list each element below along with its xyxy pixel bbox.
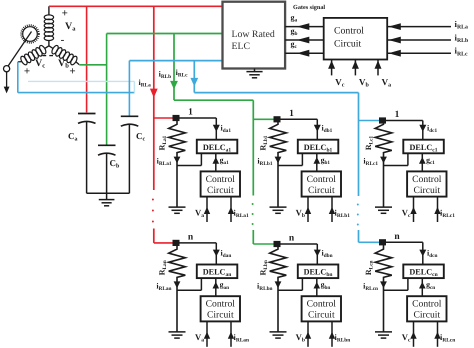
- arrow iRLb1 feedback: [329, 197, 335, 222]
- node 1 (phase c): [379, 117, 386, 123]
- capacitor Ca: [78, 114, 96, 194]
- block DELCan: [197, 265, 238, 279]
- wire Vb into control: [354, 60, 356, 76]
- arrow iRLa1 feedback: [228, 197, 234, 222]
- svg-text:Control: Control: [412, 174, 442, 185]
- wire phase b dotted continuation: [252, 203, 254, 225]
- block Control Circuit (cell b1): [302, 171, 341, 196]
- label Vc (cell c1): [402, 207, 411, 219]
- label gb1: [321, 155, 331, 166]
- wire gate gc: [285, 52, 324, 54]
- arrow gate ga: [297, 23, 310, 30]
- svg-text:+: +: [24, 66, 30, 78]
- wire phase b vertical at generator: [106, 34, 108, 146]
- block DELCc1: [403, 140, 444, 154]
- resistor RLcn: [375, 245, 392, 332]
- wire cell a1 top: [176, 118, 216, 140]
- svg-text:Control: Control: [307, 174, 337, 185]
- wire phase a drop to capacitor Ca: [86, 6, 88, 112]
- wire cell bn top: [277, 244, 317, 265]
- wire phase c top horizontal: [129, 60, 222, 62]
- svg-text:-: -: [61, 34, 65, 46]
- svg-text:Circuit: Circuit: [413, 185, 440, 196]
- wire phase c from coil: [17, 62, 19, 93]
- shaft end circle: [4, 66, 10, 72]
- label iRLbn (left): [257, 281, 273, 292]
- node n (phase a): [173, 240, 180, 246]
- svg-text:n: n: [289, 234, 295, 244]
- wire phase c dotted continuation: [357, 204, 359, 226]
- arrow iRLan (load current): [174, 281, 181, 288]
- block DELCcn: [403, 265, 444, 279]
- node 1 (phase b): [274, 116, 281, 122]
- arrow iRLb1 (load current): [275, 157, 282, 164]
- label gb: [291, 26, 298, 37]
- wire cell c1 top: [383, 121, 423, 140]
- block Control Circuit (cell an): [201, 296, 240, 321]
- block Control Circuit (cell c1): [407, 171, 446, 196]
- arrow iRLc into control: [388, 50, 400, 57]
- ground (cell bn): [270, 332, 287, 338]
- label node n: [394, 232, 400, 242]
- label ga: [291, 13, 298, 24]
- ground (cell a1): [169, 207, 186, 213]
- wire DELCc1 to load junction: [384, 153, 408, 165]
- arrow gate gc: [297, 50, 310, 57]
- wire phase b spur to node bn: [253, 243, 275, 245]
- wire phase a feeder lower: [153, 229, 155, 243]
- wire cell an top: [176, 243, 216, 265]
- label iRLbn feedback: [335, 333, 351, 344]
- label ida1: [221, 124, 232, 135]
- svg-text:+: +: [62, 8, 68, 20]
- label iRLa1 (left): [157, 157, 172, 168]
- svg-text:Circuit: Circuit: [308, 310, 335, 321]
- label idbn: [322, 248, 333, 259]
- block Control Circuit (cell bn): [302, 296, 341, 321]
- wire gate gb: [285, 39, 324, 41]
- wire phase c feeder drop: [193, 61, 195, 93]
- label Vb (cell b1): [296, 207, 305, 219]
- label Gates signal: [293, 4, 325, 11]
- label RLbn: [259, 260, 270, 275]
- arrow iRLcn feedback: [434, 322, 440, 347]
- winding Vb (phase b coil): [49, 44, 79, 65]
- label iRLa (right): [455, 19, 469, 31]
- wire Vc into control: [331, 60, 333, 76]
- generator prime-mover (hatched machine circle): [21, 25, 39, 43]
- block Control Circuit (cell a1): [201, 171, 240, 196]
- wire phase b feeder lower: [252, 230, 254, 244]
- label node n: [289, 234, 295, 244]
- svg-text:Control: Control: [206, 174, 236, 185]
- label iRLc (right): [455, 46, 469, 58]
- svg-text:Control: Control: [334, 26, 364, 37]
- arrow gate gb: [297, 37, 310, 44]
- ground (cell c1): [375, 207, 392, 213]
- label gc1: [426, 155, 435, 166]
- label iRLb1 feedback: [335, 208, 351, 219]
- arrow Va (cell a1): [204, 197, 210, 222]
- winding Va (phase a coil): [44, 6, 53, 46]
- ground (cell an): [169, 332, 186, 338]
- arrow gbn: [314, 278, 321, 296]
- arrow Vc into control: [328, 61, 335, 69]
- wire phase c drop to capacitor Cc: [128, 61, 130, 117]
- wire DELCcn to load junction: [384, 278, 408, 290]
- label iRLc1 (left): [363, 157, 378, 168]
- wire phase a dotted continuation: [152, 199, 154, 223]
- svg-text:Control: Control: [307, 299, 337, 310]
- label iRLb (right): [455, 33, 469, 45]
- label node 1: [289, 109, 294, 119]
- wire phase c spur to node cn: [359, 241, 380, 243]
- label iRLc1 feedback: [440, 208, 455, 219]
- wire phase c feeder lower: [358, 230, 360, 242]
- label RLc1: [364, 135, 375, 150]
- wire phase b feeder vertical: [252, 100, 254, 195]
- arrow gc1: [419, 153, 426, 171]
- generator shaft: [8, 32, 31, 66]
- wire phase b feeder drop: [173, 34, 175, 101]
- block Control Circuit (cell cn): [407, 296, 446, 321]
- label Cb: [110, 158, 121, 170]
- wire cell cn top: [383, 242, 423, 264]
- svg-text:Circuit: Circuit: [308, 185, 335, 196]
- arrow iRLa1 (load current): [174, 157, 181, 164]
- wire phase c upper faint horizontal: [28, 80, 134, 82]
- arrow iRLb into control: [388, 37, 400, 44]
- label Va (cell an): [195, 332, 204, 344]
- label Vc (top): [335, 77, 345, 89]
- label idcn: [427, 248, 438, 259]
- wire DELCan to load junction: [177, 278, 201, 290]
- wire phase c link vertical: [133, 81, 135, 92]
- label + (Vb): [69, 66, 75, 78]
- arrow Vb into control: [352, 61, 359, 69]
- label RLan: [158, 260, 169, 275]
- winding Vc (phase c coil): [18, 44, 49, 65]
- label Va (cell a1): [195, 207, 204, 219]
- arrow idb1: [314, 125, 321, 132]
- arrow idbn: [314, 250, 321, 257]
- wire cell b1 top: [277, 119, 317, 139]
- wire DELCbn to load junction: [278, 278, 302, 290]
- wire iRLb into control: [387, 39, 451, 41]
- resistor RLbn: [270, 247, 287, 332]
- label iRLcn feedback: [440, 333, 455, 344]
- label iRLa: [139, 78, 152, 89]
- svg-text:Circuit: Circuit: [334, 39, 361, 50]
- label gbn: [321, 280, 331, 291]
- ground (cell cn): [375, 332, 392, 338]
- label node n: [188, 232, 194, 242]
- arrow iRLbn feedback: [329, 322, 335, 347]
- arrow ida1: [213, 125, 220, 132]
- capacitor Cc: [121, 116, 139, 193]
- label idan: [221, 248, 232, 259]
- arrow iRLc1 feedback: [434, 197, 440, 222]
- wire iRLc into control: [387, 52, 451, 54]
- wire phase b feeder horizontal: [174, 99, 253, 101]
- wire phase c feeder vertical: [358, 93, 360, 196]
- wire phase b top horizontal: [107, 33, 223, 35]
- arrow gcn: [419, 278, 426, 296]
- label Vb (cell bn): [296, 332, 305, 344]
- label node 1: [395, 110, 400, 120]
- svg-text:Circuit: Circuit: [207, 185, 234, 196]
- capacitor ground bus: [87, 192, 130, 194]
- ground (capacitor bank): [99, 193, 115, 206]
- svg-text:ELC: ELC: [232, 41, 251, 52]
- label iRLb: [159, 70, 172, 81]
- label Vc (cell cn): [402, 332, 411, 344]
- arrow iRLbn (load current): [275, 281, 282, 288]
- node n (phase b): [274, 241, 281, 247]
- node n (phase c): [379, 239, 386, 245]
- resistor RLc1: [375, 123, 392, 207]
- block Low Rated ELC: [223, 2, 286, 69]
- arrow iRLb: [170, 81, 178, 90]
- svg-text:+: +: [69, 66, 75, 78]
- wire DELCa1 to load junction: [177, 153, 201, 165]
- svg-text:1: 1: [289, 109, 294, 119]
- arrow idc1: [419, 125, 426, 132]
- arrow iRLan feedback: [228, 322, 234, 347]
- arrow Vc (cell cn): [410, 322, 416, 347]
- label Ca: [68, 131, 78, 143]
- svg-text:n: n: [188, 232, 194, 242]
- wire phase a feeder drop: [153, 6, 155, 190]
- wire phase b coil link: [79, 64, 106, 66]
- label iRLa1 feedback: [234, 208, 249, 219]
- svg-text:Control: Control: [412, 299, 442, 310]
- wire phase a top horizontal: [49, 5, 223, 7]
- wire phase c spur to node c1: [359, 120, 381, 122]
- block DELCbn: [298, 265, 339, 279]
- label ga1: [220, 155, 230, 166]
- wire phase c feeder horizontal: [194, 92, 358, 94]
- svg-text:Circuit: Circuit: [413, 310, 440, 321]
- label RLcn: [364, 260, 375, 275]
- arrow Va into control: [375, 61, 382, 69]
- svg-text:1: 1: [395, 110, 400, 120]
- arrow idan: [213, 250, 220, 257]
- neutral dashes: [43, 55, 54, 57]
- label idc1: [427, 124, 438, 135]
- arrow Va (cell an): [204, 322, 210, 347]
- label Vb: [58, 58, 69, 70]
- block DELCa1: [197, 140, 238, 154]
- label gcn: [426, 280, 435, 291]
- shaft arrow down: [4, 72, 10, 94]
- label iRLb1 (left): [257, 157, 273, 168]
- arrow ga1: [213, 153, 220, 171]
- arrow Vc (cell c1): [410, 197, 416, 222]
- label gan: [220, 280, 230, 291]
- svg-text:Control: Control: [206, 299, 236, 310]
- block Control Circuit (master): [324, 18, 388, 60]
- label iRLan feedback: [234, 333, 250, 344]
- label Vb (top): [359, 77, 370, 89]
- wire phase b spur to node b1: [253, 118, 274, 120]
- arrow idcn: [419, 250, 426, 257]
- wire phase a spur to node a1: [154, 117, 174, 119]
- resistor RLa1: [169, 121, 186, 207]
- arrow iRLc1 (load current): [380, 157, 387, 164]
- capacitor Cb: [98, 145, 116, 193]
- arrow gan: [213, 278, 220, 296]
- label node 1: [188, 108, 193, 118]
- label Vc: [35, 58, 45, 70]
- ground (cell b1): [270, 207, 287, 213]
- wire iRLa into control: [387, 26, 451, 28]
- label Va (top): [382, 77, 392, 89]
- arrow iRLc: [190, 78, 198, 87]
- label RLb1: [259, 135, 270, 150]
- label idb1: [322, 124, 333, 135]
- arrow Vb (cell b1): [305, 197, 311, 222]
- wire phase a spur to node an: [154, 242, 175, 244]
- arrow Vb (cell bn): [305, 322, 311, 347]
- svg-text:Circuit: Circuit: [207, 310, 234, 321]
- label + (Vc): [24, 66, 30, 78]
- arrow gb1: [314, 153, 321, 171]
- label RLa1: [158, 135, 169, 150]
- block DELCb1: [298, 140, 339, 154]
- wire phase c lower horizontal: [18, 92, 135, 94]
- svg-text:Low Rated: Low Rated: [232, 29, 275, 40]
- label iRLc: [176, 68, 189, 79]
- label + (Va top): [62, 8, 68, 20]
- label gc: [291, 40, 298, 51]
- arrow iRLcn (load current): [380, 281, 387, 288]
- label Va: [65, 21, 76, 33]
- arrow iRLa into control: [388, 23, 400, 30]
- ground (ELC): [246, 69, 262, 78]
- wire DELCb1 to load junction: [278, 153, 302, 165]
- wire Va into control: [377, 60, 379, 76]
- node 1 (phase a): [173, 115, 180, 121]
- svg-text:n: n: [394, 232, 400, 242]
- resistor RLan: [169, 246, 186, 332]
- svg-text:1: 1: [188, 108, 193, 118]
- arrow iRLa: [150, 89, 158, 98]
- label iRLan (left): [156, 281, 171, 292]
- label - (Va bottom): [61, 34, 65, 46]
- label Cc: [136, 131, 146, 143]
- svg-text:Gates signal: Gates signal: [293, 4, 325, 11]
- resistor RLb1: [270, 122, 287, 207]
- wire gate ga: [285, 26, 324, 28]
- label iRLcn (left): [363, 281, 378, 292]
